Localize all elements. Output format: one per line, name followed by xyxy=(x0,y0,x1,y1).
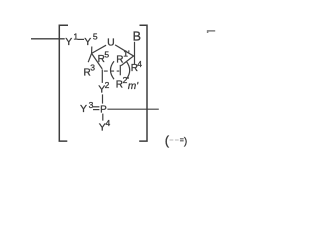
svg-text:1': 1' xyxy=(123,49,130,59)
wire: bond bridge to C1' xyxy=(121,56,134,66)
wire: ring bond U-C1' xyxy=(115,45,134,56)
wire: bond B-C1' xyxy=(134,42,136,65)
svg-text:5: 5 xyxy=(93,31,98,41)
svg-text:3: 3 xyxy=(89,100,94,110)
wire: bond Y2-P xyxy=(102,94,104,103)
wire: double bond Y3=P xyxy=(93,106,99,108)
svg-text:m': m' xyxy=(128,81,139,92)
left bracket xyxy=(59,25,68,141)
svg-text:5: 5 xyxy=(104,49,109,59)
wire: dashed bond C3' to bridge xyxy=(104,70,119,72)
svg-text:(: ( xyxy=(165,133,170,148)
svg-text:4: 4 xyxy=(137,59,142,69)
right bracket xyxy=(139,25,147,141)
wire: bridge carbon vertical bond R1'-R2' xyxy=(119,65,121,75)
svg-text:P: P xyxy=(100,104,107,115)
bridge left parenthesis xyxy=(111,61,115,79)
wire: bond C4'-R3 xyxy=(88,53,91,62)
wire: bond P-Y4 xyxy=(102,114,104,121)
bridge right parenthesis xyxy=(126,61,130,79)
svg-text:Y: Y xyxy=(84,36,91,48)
wire: external bond into left bracket xyxy=(31,38,65,40)
svg-text:1: 1 xyxy=(73,32,78,42)
wire: bond C3'-Y2 xyxy=(101,69,103,83)
wire: ring bond C4'-C3' xyxy=(92,53,103,69)
wire: bond Y1-Y5 xyxy=(77,38,84,40)
svg-text:4: 4 xyxy=(106,118,111,128)
svg-text:Y: Y xyxy=(65,36,72,48)
svg-text:3: 3 xyxy=(90,62,95,72)
svg-text:B: B xyxy=(133,30,141,44)
svg-text:U: U xyxy=(107,36,115,48)
wire: bond P to right bracket (next unit) xyxy=(107,108,158,110)
svg-text:2: 2 xyxy=(105,80,110,90)
wire: ring bond C4'-U xyxy=(92,45,107,53)
wire: bond Y5 to C4' xyxy=(91,47,93,54)
svg-text:): ) xyxy=(184,136,187,147)
faint stray mark top right xyxy=(208,31,216,33)
svg-text:Y: Y xyxy=(80,103,87,115)
